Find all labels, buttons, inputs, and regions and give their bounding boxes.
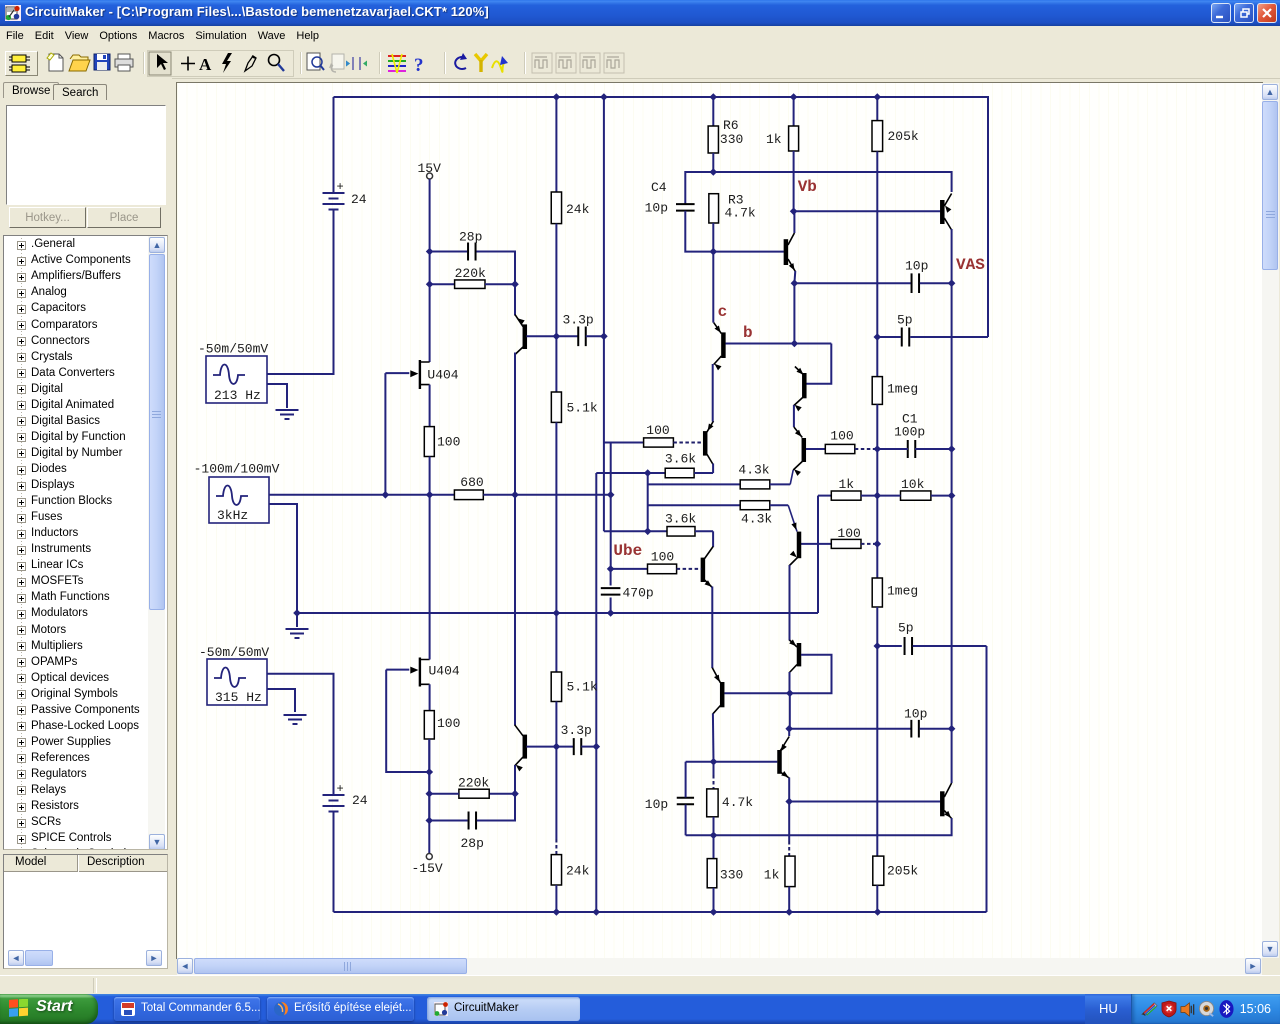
wire VAS column mid (951, 283, 953, 449)
wire 205k top stub (876, 97, 878, 121)
transistor Q9 PNP (797, 643, 802, 666)
wire 10p-2 row (789, 728, 910, 730)
wire Q1emitter column down to Q6 (514, 495, 516, 726)
junction C1 right (948, 445, 956, 453)
junction 3.3p/24k column (553, 333, 561, 341)
wire 5.1k column (555, 336, 557, 392)
wire 609 column to 470p (610, 569, 612, 586)
junction top rail / R6 (710, 93, 718, 101)
menu bar (0, 26, 1280, 47)
wire -15V column (428, 739, 430, 853)
junction 220k/Q1 base net (511, 280, 519, 288)
resistor 10k (901, 491, 931, 500)
wire 5p-1 row left (877, 336, 901, 338)
resistor R6 330 (708, 126, 718, 153)
transistor Q4 left low NPN (701, 558, 706, 582)
svg-text:315 Hz: 315 Hz (215, 690, 262, 705)
wire S2 output to 680 row (269, 494, 454, 496)
model/description panel (3, 854, 168, 969)
wire 3.3p right (586, 335, 604, 337)
wire c column (R3 node down to Q8) (712, 252, 714, 323)
wire Q2 emitter to 3.6k (712, 464, 714, 474)
wire 10p-2L bottom stub (685, 805, 687, 836)
wire 205k bottom to 5p row (876, 151, 878, 337)
svg-text:3kHz: 3kHz (217, 508, 248, 523)
wire 876 column to 1meg (876, 337, 878, 377)
wire C1 right stub (915, 448, 952, 450)
wire 470p to mid rail (610, 598, 612, 614)
svg-text:100: 100 (830, 429, 853, 444)
svg-text:c: c (718, 303, 728, 321)
capacitor 28p lower (469, 812, 477, 830)
resistor 100 Q4 base (648, 564, 677, 574)
wire 220k-2 row left seg (429, 793, 459, 795)
wire R6 top stub (712, 97, 714, 126)
wire Q1 base column (514, 251, 516, 316)
capacitor C4 10p (676, 204, 695, 211)
junction 15V/28p (426, 248, 434, 256)
wire 602 column upper (603, 97, 605, 336)
junction top rail / 602 column (600, 93, 608, 101)
wire 220k row left (430, 283, 455, 285)
wire 100 base row upper-left corner (604, 442, 644, 444)
capacitor C1 100p (908, 440, 916, 458)
wire 680 right to Ube column (483, 494, 610, 496)
wire Q5 collector to 100-4 row (801, 543, 832, 545)
wire Q7 collector link (793, 211, 795, 233)
wire Q11 emitter to base row (712, 714, 715, 762)
source S2 -100m/100mV 3kHz (209, 477, 269, 523)
transistor Q7 driver NPN (784, 239, 789, 265)
wire 4.7k-2 bottom (713, 817, 715, 836)
wire U404b gate (386, 669, 409, 671)
transistor Q2 left mid PNP (703, 431, 708, 456)
resistor 4.7k lower (707, 789, 718, 817)
wire R6 bottom to 171 row (712, 153, 714, 172)
junction S2 ground tap (293, 609, 301, 617)
svg-text:330: 330 (720, 132, 743, 147)
wire S3 output to battery B2 (267, 674, 334, 795)
wire 1k-1 bottom to Vb (793, 151, 795, 211)
wire 3.3p-2 right (581, 746, 596, 748)
wire 10p-1 right (920, 282, 952, 284)
resistor 680 (454, 490, 483, 500)
svg-text:-50m/50mV: -50m/50mV (198, 342, 268, 357)
wire Q12 emitter down (788, 778, 790, 802)
toolbar (0, 46, 1280, 79)
capacitor 10p lower-left (677, 798, 694, 805)
junction Ube dot (607, 565, 615, 573)
wire Q4 collector link (712, 531, 714, 547)
wire tee 609.7 down to 680 junction (610, 443, 612, 495)
junction Q9/Q11 node (786, 689, 794, 697)
svg-text:1k: 1k (766, 132, 782, 147)
capacitor 5p lower (905, 637, 913, 655)
resistor 24k lower (551, 855, 561, 885)
svg-text:100: 100 (837, 526, 860, 541)
svg-text:R6: R6 (723, 118, 739, 133)
battery B1 (323, 193, 345, 210)
wire Q7 emitter down (793, 271, 796, 283)
wire mid rail (long horizontal) (297, 612, 818, 614)
wire source S2 minus down (269, 504, 297, 613)
junction C1 left (874, 445, 882, 453)
junction top rail / 1k (790, 93, 798, 101)
svg-text:470p: 470p (623, 586, 654, 601)
wire Q11 emitter column (711, 666, 713, 669)
svg-text:100: 100 (437, 435, 460, 450)
svg-text:A: A (199, 55, 212, 74)
capacitor 10p lower-right (911, 720, 919, 738)
junction 15V/220k (426, 280, 434, 288)
wire S2 ground stub (296, 613, 298, 627)
source S3 -50m/50mV 315 Hz (207, 659, 267, 705)
resistor 330 lower (707, 859, 717, 888)
resistor 4.3k upper (740, 480, 770, 489)
window title bar (0, 0, 1280, 26)
junction 470p / mid rail (607, 609, 615, 617)
svg-text:28p: 28p (459, 230, 482, 245)
junction bottom rail / 595 column (593, 908, 601, 916)
junction mid rail / 24k column (553, 609, 561, 617)
svg-text:24: 24 (351, 192, 367, 207)
junction 10k left (874, 492, 882, 500)
svg-text:10p: 10p (645, 201, 668, 216)
transistor Q1 upper left cascode (523, 324, 528, 349)
wire 1k-3 to 10k row (861, 495, 877, 497)
wire 28p row right (477, 251, 516, 253)
transistor Q6 lower-left NPN mirrored (523, 735, 528, 759)
terminal -15V (426, 854, 432, 860)
junction R3/C4/Q7 base (710, 248, 718, 256)
svg-text:680: 680 (460, 475, 483, 490)
svg-text:24k: 24k (566, 864, 590, 879)
wire 330 to bottom rail (713, 888, 715, 912)
svg-text:?: ? (414, 55, 424, 76)
wire 876 column lower (876, 646, 878, 856)
wire right outer vertical upper segment (987, 96, 989, 337)
wire U404b gate loop (386, 670, 429, 772)
wire S1 minus to ground (267, 384, 287, 408)
wire 5.1k to mid rail (555, 422, 557, 613)
svg-text:Ube: Ube (613, 542, 642, 560)
svg-text:1meg: 1meg (887, 382, 918, 397)
junction Q1 emitter / 680 row (511, 491, 519, 499)
junction top rail / 24k column (553, 93, 561, 101)
svg-text:28p: 28p (461, 836, 484, 851)
svg-text:330: 330 (720, 868, 743, 883)
junction Q12 base / 4.7k (710, 758, 718, 766)
svg-text:VAS: VAS (956, 256, 985, 274)
wire 24k-2 to bottom rail (555, 885, 557, 912)
wire S3 minus to ground (267, 689, 295, 712)
JFET U404b (410, 658, 429, 687)
wire Vb row to Q10 base (794, 210, 941, 212)
ground S3 (284, 715, 307, 724)
wire U404b drain up (429, 495, 431, 660)
wire Q13 collector up (951, 729, 953, 783)
wire battery B2 to bottom rail (333, 812, 335, 913)
wire Q6 base row to 3.3p lower (527, 746, 574, 748)
wire Q6 emitter down (514, 765, 516, 794)
wire 5.1k-2 to 3.3p-2 row (555, 702, 557, 747)
resistor 220k lower (459, 789, 489, 798)
junction bottom rail / 330 (710, 908, 718, 916)
source S1 -50m/50mV sine 213 Hz (206, 356, 267, 403)
wire 5p-1 row right to outer column (910, 336, 988, 338)
junction bottom rail / 205k-2 (874, 908, 882, 916)
junction 10k right (948, 492, 956, 500)
wire 1meg-2 bottom to 5p-2 (876, 607, 878, 646)
junction Q12 emitter / Q13 base row (785, 798, 793, 806)
wire 1meg-1 bottom (876, 404, 878, 578)
capacitor 5p upper (902, 328, 910, 347)
junction VAS node (948, 279, 956, 287)
wire 28p-2 row right / corner up (477, 794, 515, 821)
wire 28p-2 row left (429, 820, 467, 822)
svg-text:205k: 205k (887, 864, 918, 879)
taskbar (0, 994, 1280, 1024)
wire 3.6k row 2 left (604, 530, 667, 532)
wire 3.6k-2 right (695, 530, 713, 532)
wire 1k-1 top stub (793, 97, 795, 126)
wire 817 column (1k to mid rail) (817, 496, 819, 613)
wire 4.7k-2 column (713, 762, 715, 775)
svg-text:1meg: 1meg (887, 584, 918, 599)
resistor 1k lower (785, 856, 795, 887)
junction 834 row / 4.7k-2 bottom (710, 832, 718, 840)
junction Vb (790, 208, 798, 216)
svg-text:+: + (337, 782, 344, 796)
wire 1k-2 column (788, 802, 790, 842)
wire 1k-2 to bottom rail (788, 887, 790, 912)
svg-text:100p: 100p (894, 425, 925, 440)
svg-text:220k: 220k (455, 266, 486, 281)
junction 3.3p-2 / 556 column (553, 743, 561, 751)
junction 5p-2 row (874, 642, 882, 650)
wire gate column down (384, 373, 386, 495)
junction U404a source / 680 row (426, 491, 434, 499)
junction 220k-2 / 15V column (426, 790, 434, 798)
wire 100b to 220k junction (428, 739, 430, 821)
wire 220k-2 row right seg (489, 793, 515, 795)
canvas with schematic (176, 82, 1263, 959)
junction bottom rail / 1k-2 (785, 908, 793, 916)
battery B2 (323, 795, 345, 812)
svg-text:+: + (337, 180, 344, 194)
wire 5p-2 row left (877, 645, 902, 647)
svg-text:U404: U404 (429, 664, 460, 679)
wire Q12 base row (686, 761, 778, 763)
wire Q8 emitter column down (712, 364, 714, 422)
transistor Q5a NPN (802, 438, 807, 462)
ground S1 (276, 410, 299, 419)
wire 4.3k-2 right diagonal to Q5 (770, 504, 788, 506)
wire 556 column mid-lower (555, 613, 557, 672)
wire Q9 collector down to junction (789, 672, 791, 693)
capacitor 3.3p lower (574, 738, 582, 755)
svg-text:5p: 5p (897, 313, 913, 328)
wire 3.6k row 1 (596, 472, 665, 474)
capacitor 10p VAS upper (912, 273, 920, 293)
svg-text:Vb: Vb (798, 178, 817, 196)
wire C4 bottom loop to Q3 base node (685, 211, 713, 252)
resistor 1k upper (789, 126, 799, 151)
status bar (0, 975, 1280, 995)
svg-text:3.6k: 3.6k (665, 511, 696, 526)
wire 10k left stub (877, 495, 900, 497)
resistor 1k mid (831, 491, 861, 500)
wire b corner down to Q3 base (806, 344, 831, 384)
wire 24k column upper (555, 97, 557, 192)
svg-text:213 Hz: 213 Hz (214, 388, 261, 403)
wire 100-4 to 1meg column (861, 543, 877, 545)
svg-text:3.6k: 3.6k (665, 452, 696, 467)
resistor 3.6k upper (665, 468, 694, 478)
svg-text:3.3p: 3.3p (561, 723, 592, 738)
wire Q5 emitter column to Q9 (789, 565, 791, 641)
svg-text:-15V: -15V (412, 861, 443, 876)
wire 10p-2 right (920, 728, 952, 730)
wire R3 bottom (712, 223, 714, 252)
svg-text:10p: 10p (904, 707, 927, 722)
wire 5p-2 row right to outer column (913, 645, 987, 647)
wire battery B1 to source S1 (267, 210, 334, 375)
junction 28p-2 / 15V column (426, 817, 434, 825)
wire 646 column between 3.6k rows (647, 473, 649, 531)
svg-text:24: 24 (352, 793, 368, 808)
junction 3.6k-1 left (644, 469, 652, 477)
wire 28p row left (430, 251, 467, 253)
wire bottom supply rail (334, 911, 987, 913)
resistor 1meg lower (872, 578, 882, 607)
wire top supply rail (334, 96, 989, 98)
wire Q5b to 4.3k-2 diag (788, 505, 797, 531)
capacitor 3.3p upper (578, 327, 586, 347)
wire Q13 emitter corner (686, 818, 952, 835)
wire 4.3k-2 row (648, 504, 741, 506)
wire 205k-2 to bottom rail (876, 885, 878, 912)
transistor Q8 NPN mirrored (721, 332, 726, 358)
junction 220k-2 right (511, 790, 519, 798)
wire right outer vertical lower segment (986, 646, 988, 912)
resistor R3 4.7k (709, 194, 719, 223)
wire Q13 base row (789, 801, 940, 803)
svg-text:5.1k: 5.1k (567, 680, 598, 695)
wire Q9 base loop (724, 655, 831, 693)
wire Q1 base row to 3.3p (527, 335, 579, 337)
junction R6/C4/R3 net (710, 168, 718, 176)
wire Q1 emitter down to 680 row (514, 353, 516, 495)
junction 100-4 right (874, 540, 882, 548)
svg-text:5.1k: 5.1k (567, 401, 598, 416)
svg-text:10p: 10p (645, 797, 668, 812)
wire battery B1 top feed (333, 97, 335, 193)
wire 171 row (C4 top to VAS emitter) (685, 172, 951, 204)
wire Q3 emitter chain to Q5a (793, 405, 795, 427)
svg-text:4.3k: 4.3k (741, 511, 772, 526)
wire 10p-2L top stub (685, 762, 687, 798)
svg-text:100: 100 (646, 423, 669, 438)
junction 10p-2 / Q13 collector (948, 725, 956, 733)
junction U404b gate row / 15V column (426, 768, 434, 776)
resistor 100 Q5a base (825, 444, 855, 453)
resistor 100 Q2 base (644, 438, 674, 447)
wire U404b source to 100 (429, 684, 431, 710)
junction 680 right end (607, 491, 615, 499)
svg-text:-100m/100mV: -100m/100mV (194, 462, 280, 477)
left panel (0, 78, 172, 994)
wire 4.3k-1 right to Q3 emitter (770, 483, 790, 485)
wire Q5a emitter diag to 4.3k-1 (793, 460, 804, 470)
JFET U404a (410, 360, 429, 389)
junction bottom rail / 24k-2 (553, 908, 561, 916)
wire 100 to 680 junction (429, 457, 431, 495)
svg-text:C4: C4 (651, 180, 667, 195)
transistor Q13 bottom-right NPN (940, 791, 945, 816)
wire 595 column (595, 473, 597, 912)
junction Q7 emitter / 10p row (791, 279, 799, 287)
wire Q4 emitter column down (711, 587, 713, 668)
wire 3.6k-1 right to Q2 emitter (694, 472, 713, 474)
svg-text:15V: 15V (418, 161, 442, 176)
svg-text:1k: 1k (839, 477, 855, 492)
wire 10k right stub (931, 495, 952, 497)
capacitor 470p (601, 588, 621, 595)
svg-text:10p: 10p (905, 259, 928, 274)
junction 10p-2 row / Q12 (785, 725, 793, 733)
resistor 24k upper (551, 192, 561, 224)
resistor 205k upper (872, 121, 883, 152)
resistor 4.3k lower (740, 501, 770, 510)
capacitor 28p (input Miller) (468, 243, 476, 261)
wire 24k to 3.3p junction (555, 224, 557, 337)
wire 100 to Q4 base (677, 568, 702, 570)
resistor 100 Q5 collector (831, 539, 861, 548)
svg-text:4.7k: 4.7k (722, 795, 753, 810)
task buttons (114, 997, 260, 1021)
svg-text:24k: 24k (566, 202, 590, 217)
transistor Q12 NPN (777, 750, 782, 774)
canvas horizontal scrollbar (177, 958, 1262, 975)
resistor 5.1k upper (551, 392, 561, 422)
wire Q10 collector down (951, 229, 953, 283)
svg-text:-50m/50mV: -50m/50mV (199, 645, 269, 660)
wire 602 column lower (603, 336, 605, 531)
svg-text:3.3p: 3.3p (563, 313, 594, 328)
wire b row (726, 343, 832, 345)
resistor 220k feedback upper (455, 280, 485, 289)
wire 4.3k-1 row (648, 483, 741, 485)
transistor Q5 output driver PNP (797, 532, 802, 559)
svg-text:100: 100 (437, 716, 460, 731)
svg-text:100: 100 (651, 550, 674, 565)
resistor 3.6k lower (667, 527, 695, 537)
resistor 205k lower (873, 856, 884, 885)
svg-text:5p: 5p (898, 621, 914, 636)
svg-text:4.7k: 4.7k (725, 206, 756, 221)
resistor 5.1k lower (551, 672, 561, 702)
transistor Q11 NPN mirrored (720, 682, 725, 707)
svg-text:1k: 1k (764, 868, 780, 883)
wire Q7 base row (713, 251, 784, 253)
svg-text:205k: 205k (888, 129, 919, 144)
transistor Q10 VAS PNP (940, 200, 945, 224)
svg-text:4.3k: 4.3k (738, 463, 769, 478)
junction b / Q7 emitter column (791, 340, 799, 348)
wire Q7emitter-b link (793, 283, 795, 343)
junction 5p-1 row (874, 333, 882, 341)
